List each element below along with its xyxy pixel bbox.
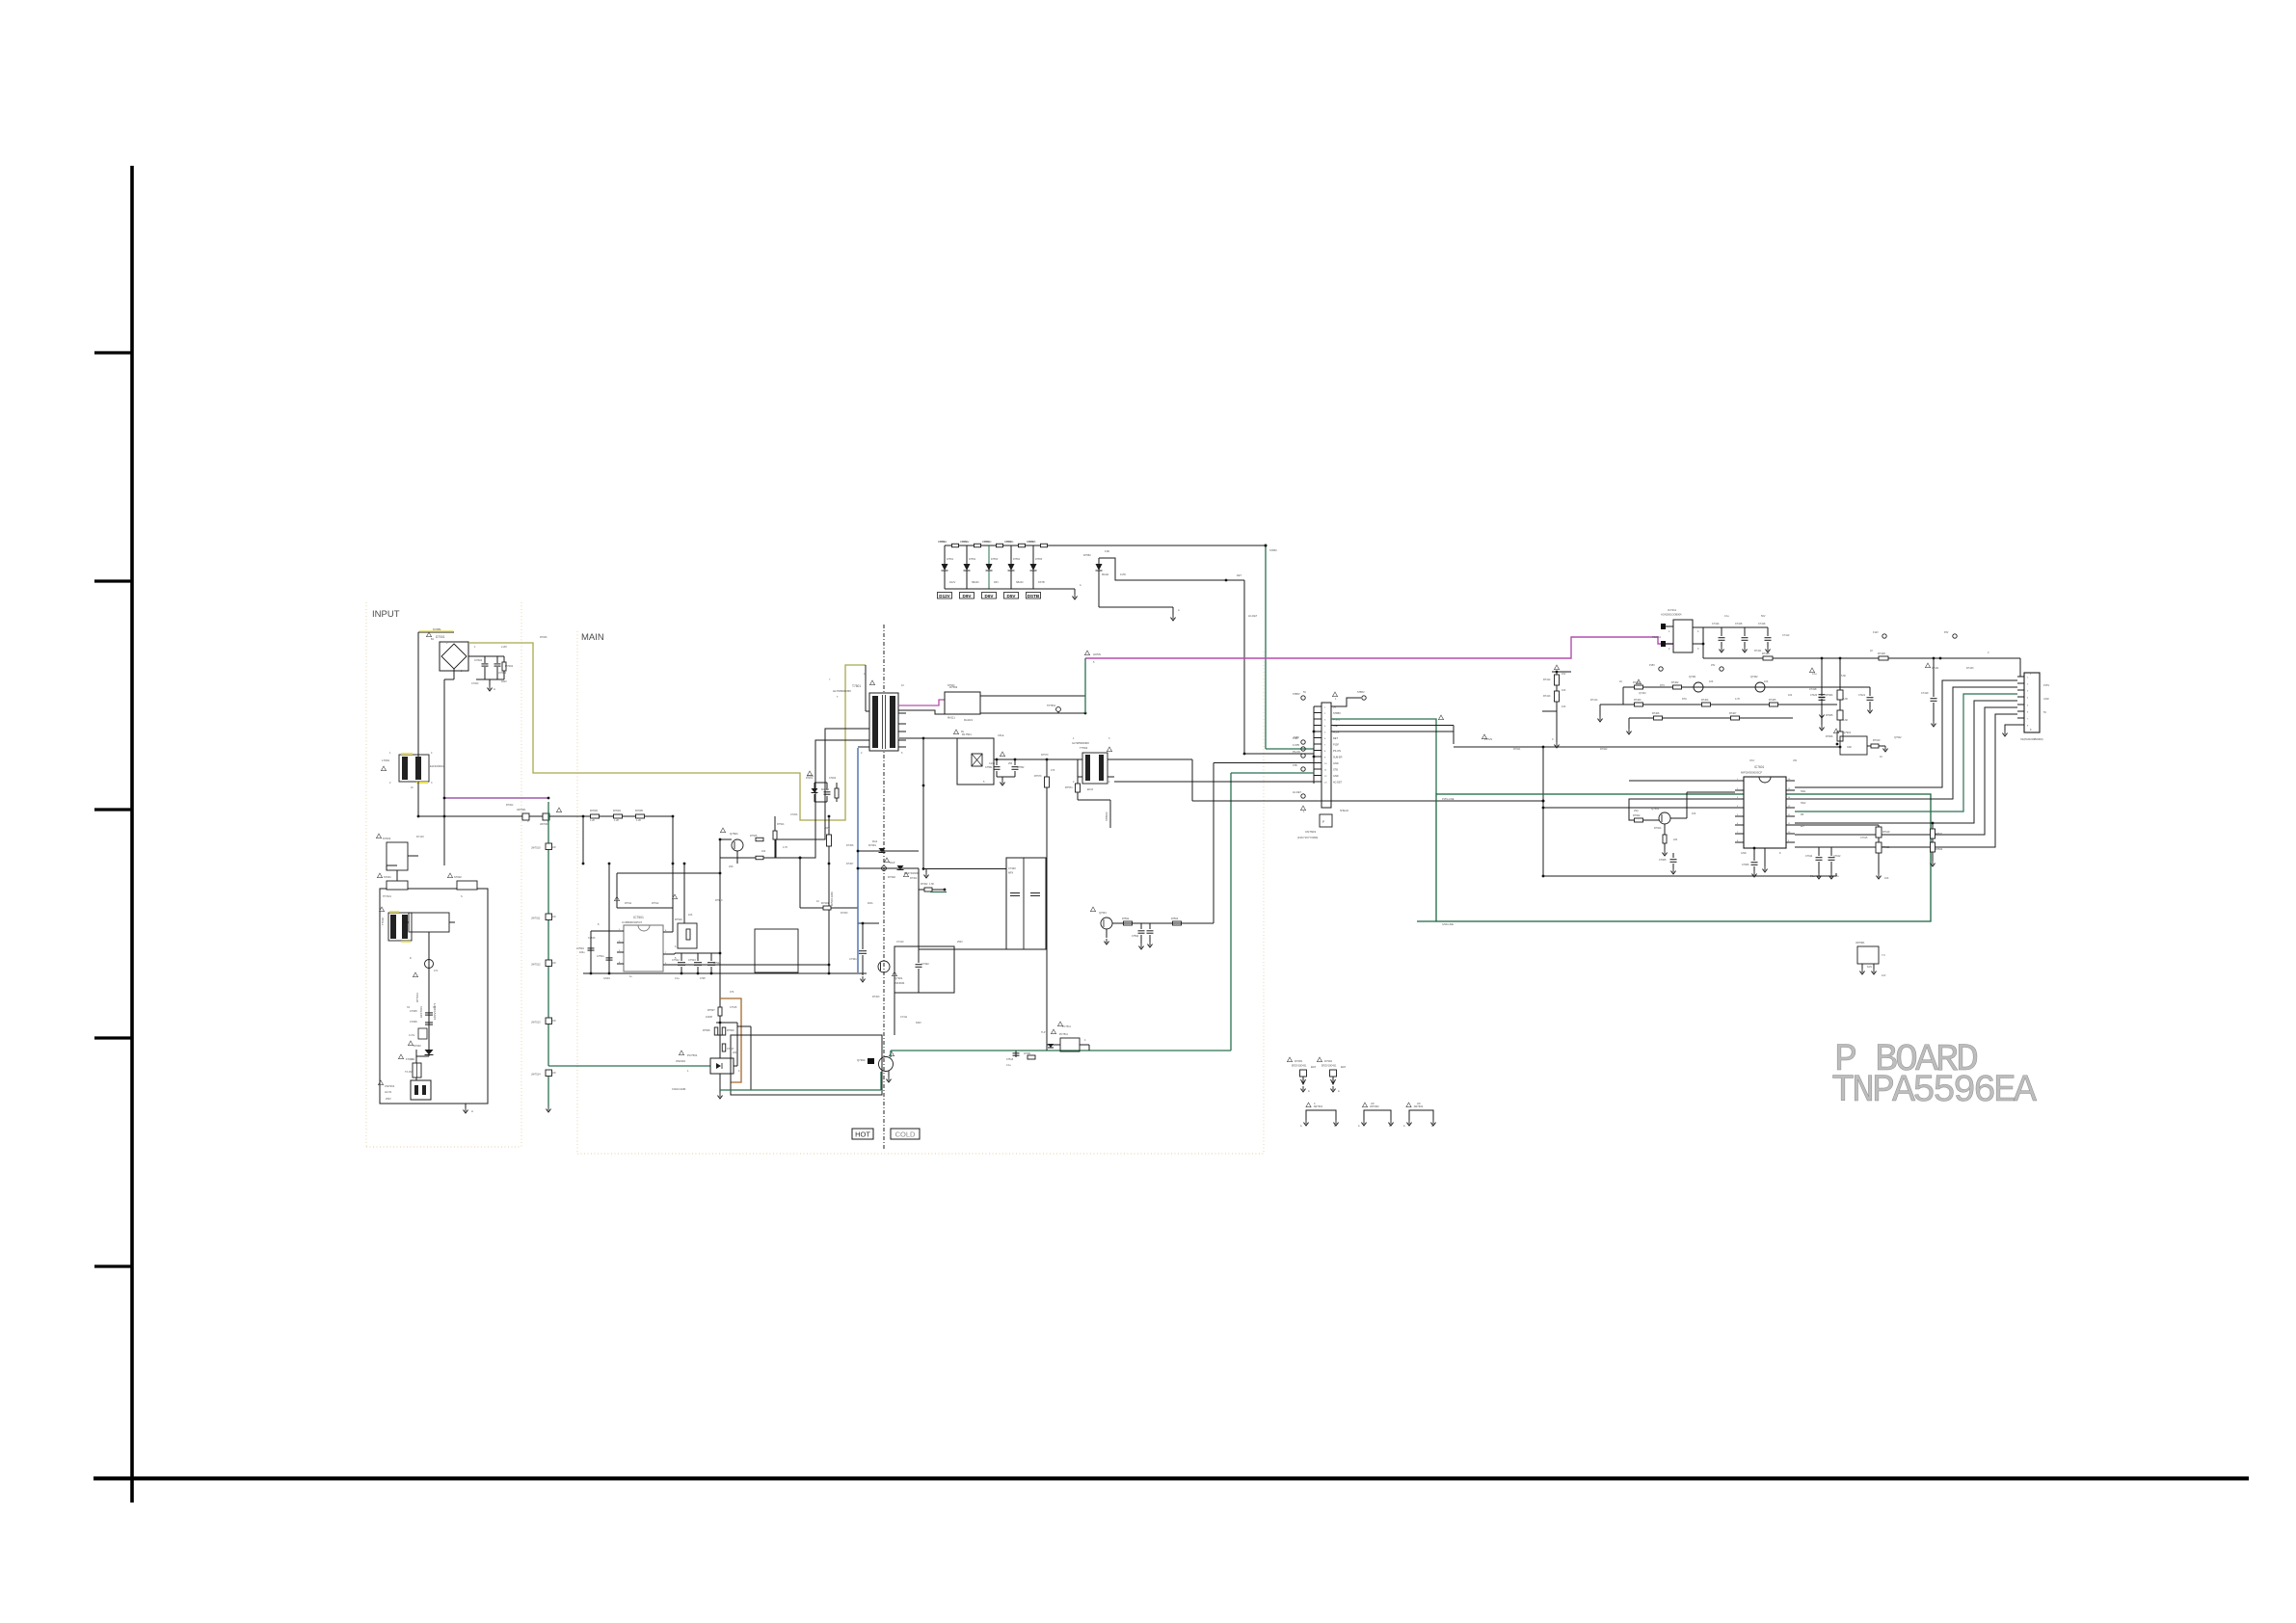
- svg-text:T7501: T7501: [852, 684, 861, 688]
- svg-text:220: 220: [733, 1051, 737, 1054]
- IC7501 left pin 2: [617, 942, 624, 944]
- resistor R7910: [1867, 745, 1871, 747]
- svg-text:DSTB: DSTB: [1028, 594, 1040, 599]
- svg-text:D7303: D7303: [1295, 1059, 1302, 1063]
- svg-text:R7301: R7301: [821, 901, 829, 905]
- main switch block: [731, 1035, 882, 1095]
- IC7601 bottom cap2: [1764, 848, 1766, 866]
- upper cluster caps: [1821, 687, 1823, 696]
- svg-text:220: 220: [1673, 838, 1678, 841]
- wire zener bottom: [1098, 578, 1100, 607]
- wire IC7501 vcc: [591, 930, 624, 932]
- snubber box right: [894, 946, 954, 993]
- svg-text:R7507: R7507: [707, 1008, 715, 1012]
- svg-text:10K: 10K: [1562, 705, 1566, 708]
- magenta wire AC5S: [1085, 637, 1673, 658]
- svg-text:R7512: R7512: [652, 902, 659, 905]
- svg-text:D7554: D7554: [1013, 558, 1021, 561]
- purple wire ACL: [444, 797, 548, 799]
- cap C7605: [1672, 853, 1674, 858]
- svg-text:JW7514: JW7514: [531, 1073, 541, 1077]
- svg-text:AON2601OOB004: AON2601OOB004: [1661, 613, 1682, 617]
- svg-text:ON3191: ON3191: [676, 1059, 686, 1063]
- svg-text:C100: C100: [989, 762, 996, 765]
- rectifier group D6V: [997, 544, 1003, 547]
- capacitor C7002: [496, 656, 498, 663]
- connector CN7603 shield: [1320, 814, 1332, 827]
- T7501 primary pin y775: [866, 746, 869, 748]
- svg-text:AC IN: AC IN: [385, 1090, 391, 1094]
- svg-text:400V: 400V: [501, 680, 507, 683]
- wire fuse link: [415, 1050, 417, 1063]
- jumper JW7511 on standby wire: [546, 914, 552, 920]
- svg-text:D7301: D7301: [868, 843, 876, 847]
- svg-text:4: 4: [1697, 630, 1699, 633]
- aux box: [755, 929, 798, 972]
- IC7601 left pin 6: [1735, 824, 1744, 826]
- brown feedback loop: [720, 998, 741, 1082]
- svg-text:GND: GND: [1333, 775, 1339, 778]
- svg-text:C7511: C7511: [597, 954, 604, 958]
- svg-text:A: A: [1080, 584, 1081, 587]
- svg-text:1K: 1K: [1619, 680, 1622, 683]
- svg-text:C7005: C7005: [410, 1009, 417, 1013]
- svg-text:2: 2: [389, 782, 391, 785]
- capacitor C7514: [710, 953, 712, 961]
- svg-text:STB: STB: [1333, 769, 1338, 772]
- terminal STB5V: [1301, 696, 1305, 700]
- svg-text:C7302: C7302: [921, 962, 929, 966]
- svg-text:C7204: C7204: [790, 813, 798, 816]
- AC inlet CN7001: [411, 1080, 431, 1100]
- X1 pin 1: [2017, 676, 2024, 678]
- svg-text:R7565: R7565: [1028, 541, 1036, 544]
- svg-text:1K: 1K: [1870, 650, 1873, 652]
- resistor R7573: [1046, 759, 1048, 777]
- svg-text:FAN: FAN: [1867, 966, 1872, 969]
- svg-text:P: P: [1322, 820, 1324, 824]
- svg-text:D7302: D7302: [888, 875, 895, 879]
- staircase wire F: [1795, 714, 2017, 847]
- svg-text:630V: 630V: [916, 1022, 921, 1024]
- svg-text:R7921: R7921: [1513, 748, 1521, 751]
- svg-text:T: T: [837, 696, 839, 699]
- wire IC7501 fb loop: [617, 872, 720, 874]
- svg-text:8: 8: [598, 923, 600, 926]
- varistor symbol: [425, 1050, 434, 1055]
- green wire to connector: [891, 1050, 1231, 1051]
- svg-text:5: 5: [983, 781, 985, 784]
- svg-text:F5V: F5V: [1944, 631, 1949, 634]
- standby feedback cluster: [1060, 1038, 1080, 1051]
- svg-text:STB5V: STB5V: [1357, 691, 1365, 694]
- svg-text:10K: 10K: [688, 914, 693, 917]
- capacitor row C7414: [1721, 627, 1722, 636]
- resistor stack R7906: [1839, 720, 1841, 732]
- transformer T7502: [1082, 753, 1108, 784]
- CN7603 pin 3: [1314, 718, 1322, 720]
- IC7601 left pin 3: [1735, 798, 1744, 800]
- svg-text:1: 1: [1303, 811, 1305, 813]
- svg-text:10K: 10K: [1692, 812, 1696, 815]
- svg-text:10: 10: [901, 684, 904, 687]
- terminal PS-ON: [1301, 754, 1305, 758]
- capacitor C7418: [1821, 658, 1823, 693]
- CN7603 right wire 3: [1331, 725, 1454, 727]
- staircase wire B: [1795, 687, 2017, 799]
- svg-text:1.5K: 1.5K: [929, 883, 934, 886]
- svg-text:R7631: R7631: [1936, 833, 1943, 836]
- svg-text:R7563: R7563: [948, 684, 955, 687]
- svg-text:TLP: TLP: [1041, 1031, 1046, 1034]
- terminal P15F: [1301, 740, 1305, 744]
- svg-text:A: A: [1403, 1125, 1405, 1128]
- svg-text:JW7513: JW7513: [531, 1021, 541, 1024]
- svg-text:HOT: HOT: [855, 1131, 870, 1139]
- svg-text:MA111S: MA111S: [964, 719, 974, 722]
- svg-text:R7573: R7573: [1041, 754, 1049, 757]
- wire bus drop right: [672, 816, 674, 932]
- resistor R7003: [591, 814, 600, 818]
- svg-text:INPUT: INPUT: [372, 609, 400, 620]
- border tick 1: [94, 351, 132, 354]
- svg-text:C7615: C7615: [1860, 837, 1868, 839]
- long wire under connector: [1192, 800, 1543, 802]
- svg-text:A: A: [494, 687, 495, 691]
- svg-text:GND1: GND1: [603, 977, 611, 980]
- svg-text:VIN: VIN: [1793, 759, 1797, 762]
- svg-text:R7418: R7418: [1878, 652, 1885, 655]
- svg-text:EF16: EF16: [1087, 788, 1094, 791]
- IC7501 left pin 4: [617, 963, 624, 965]
- startup resistor R7515: [828, 816, 830, 973]
- svg-text:R7302: R7302: [921, 883, 928, 886]
- svg-text:JW: JW: [552, 916, 556, 918]
- svg-text:FB: FB: [1801, 813, 1804, 816]
- filter block: [409, 913, 449, 932]
- CN7603 left wire p10: [1214, 762, 1314, 764]
- svg-text:P15F: P15F: [1333, 744, 1339, 747]
- svg-text:B1: B1: [431, 638, 435, 641]
- svg-text:T3.15A: T3.15A: [405, 1071, 413, 1074]
- svg-text:C7513: C7513: [1006, 1058, 1014, 1061]
- COLD label: [891, 1129, 920, 1139]
- border frame left line: [130, 166, 134, 1503]
- primary pin stub blue: [858, 746, 866, 748]
- svg-text:1.2K: 1.2K: [636, 819, 641, 822]
- svg-text:0.1u: 0.1u: [675, 977, 680, 980]
- svg-text:4.7K: 4.7K: [1735, 698, 1740, 701]
- X1 pin 5: [2017, 704, 2024, 705]
- svg-text:D9V: D9V: [963, 594, 973, 599]
- svg-text:0.1u: 0.1u: [1724, 615, 1729, 618]
- svg-text:A: A: [1300, 1125, 1302, 1128]
- svg-text:JW: JW: [1371, 1103, 1375, 1105]
- svg-text:X2: X2: [407, 1006, 411, 1009]
- thermistor RT7001: [425, 960, 434, 969]
- svg-text:C7605: C7605: [1659, 859, 1667, 862]
- svg-text:C7001: C7001: [474, 658, 483, 662]
- svg-text:R7573: R7573: [1034, 775, 1042, 778]
- IC7601 right pin 15: [1786, 789, 1795, 791]
- svg-text:R7593: R7593: [1171, 918, 1179, 920]
- capacitor row C7416: [1767, 627, 1769, 636]
- terminal F-STB: [1301, 747, 1305, 751]
- jumper staple JW7303: [1409, 1110, 1433, 1120]
- svg-text:R7412: R7412: [1543, 678, 1551, 681]
- resistor chain R7619: [1878, 825, 1880, 827]
- IC7601 left wire 1: [1629, 780, 1735, 782]
- svg-text:D7303: D7303: [841, 912, 848, 915]
- svg-text:R7602: R7602: [1633, 814, 1641, 817]
- resistor R7510: [722, 1044, 726, 1051]
- test point TP7501: [1056, 707, 1061, 712]
- svg-text:D7002: D7002: [414, 1044, 421, 1048]
- svg-text:C7513: C7513: [688, 958, 696, 962]
- svg-text:100u: 100u: [579, 951, 585, 954]
- svg-text:DSTB: DSTB: [1038, 581, 1045, 584]
- svg-text:TP7501: TP7501: [1047, 704, 1056, 707]
- svg-text:AC5S: AC5S: [1093, 652, 1101, 656]
- wire secondary bottom: [1191, 759, 1193, 801]
- jumper staple JW7301: [1306, 1110, 1336, 1120]
- X1 pin 3: [2017, 689, 2024, 691]
- warning label Q7301: [892, 971, 896, 976]
- svg-text:400V: 400V: [824, 827, 830, 830]
- svg-text:ERZ: ERZ: [1311, 1066, 1316, 1069]
- svg-text:0: 0: [1552, 738, 1554, 741]
- IC7601 right pin 9: [1786, 841, 1795, 843]
- CN7603 left wire p13: [1114, 781, 1314, 783]
- IC7601 regulator body: [1744, 777, 1786, 848]
- wire center cont: [719, 1016, 721, 1058]
- T7501 secondary pin y740: [898, 712, 906, 714]
- terminal STB: [1301, 767, 1305, 771]
- wire block center vertical: [428, 932, 430, 1050]
- svg-text:1u: 1u: [1836, 875, 1839, 878]
- wire R7619 top: [1795, 824, 1879, 826]
- capacitor C7005: [425, 1012, 433, 1014]
- svg-text:COLD: COLD: [895, 1131, 916, 1139]
- svg-text:C7419: C7419: [1921, 692, 1929, 695]
- IC7501 right pin 6: [663, 964, 670, 966]
- svg-text:A: A: [1358, 1125, 1360, 1128]
- wire secondary relay: [899, 737, 957, 739]
- svg-text:0.1u: 0.1u: [1812, 673, 1817, 676]
- svg-text:C7006: C7006: [410, 1020, 417, 1024]
- magenta secondary wire: [898, 700, 945, 705]
- svg-text:R7571: R7571: [1065, 785, 1073, 789]
- CN7603 pin 12: [1314, 775, 1322, 777]
- svg-text:47K: 47K: [730, 991, 734, 994]
- svg-text:2SK: 2SK: [729, 865, 734, 868]
- svg-text:MIP2M30000SCF: MIP2M30000SCF: [1741, 771, 1763, 775]
- box C7320 bulk caps: [1006, 858, 1046, 949]
- capacitor C7551: [996, 759, 998, 765]
- svg-text:R7303: R7303: [872, 996, 880, 998]
- CN7603 pin 1: [1314, 705, 1322, 707]
- svg-text:C7310: C7310: [896, 941, 904, 944]
- svg-text:AC-DET: AC-DET: [1293, 791, 1301, 794]
- staircase wire C: [1795, 694, 2017, 811]
- svg-text:R7413: R7413: [1543, 695, 1551, 698]
- svg-text:(K1KY16YY0090): (K1KY16YY0090): [1297, 836, 1318, 839]
- wire diode D7301: [858, 850, 919, 852]
- svg-text:D12V: D12V: [939, 594, 950, 599]
- IC7601 left wire 3: [1543, 807, 1735, 809]
- svg-text:2: 2: [861, 752, 863, 755]
- svg-text:5.6K: 5.6K: [1841, 675, 1846, 678]
- svg-text:S7001: S7001: [384, 875, 391, 879]
- svg-text:RY12V: RY12V: [416, 836, 424, 838]
- caps right C7611: [1818, 847, 1820, 856]
- svg-text:GND: GND: [1333, 762, 1339, 765]
- svg-text:COLD-GND: COLD-GND: [672, 1087, 685, 1091]
- transistor Q7602: [1659, 812, 1670, 824]
- svg-text:A: A: [471, 1109, 473, 1113]
- svg-text:FMG: FMG: [868, 902, 873, 905]
- IC7601 bottom caps: [1753, 848, 1755, 861]
- svg-text:RGP10: RGP10: [821, 788, 830, 791]
- svg-text:C1BB00002547: C1BB00002547: [622, 920, 643, 924]
- svg-text:GND: GND: [1741, 852, 1747, 855]
- svg-text:R7407: R7407: [1729, 712, 1737, 715]
- svg-text:D7553: D7553: [991, 558, 999, 561]
- svg-text:1: 1: [389, 752, 391, 755]
- svg-text:ERZV10D431: ERZV10D431: [1322, 1065, 1337, 1068]
- svg-text:SB240: SB240: [1016, 581, 1024, 584]
- IC7501 left pin 3: [617, 951, 624, 953]
- svg-text:4: 4: [1108, 781, 1110, 784]
- svg-text:ERZ: ERZ: [1341, 1066, 1346, 1069]
- staircase wire A: [1795, 680, 2017, 787]
- svg-text:R7905: R7905: [1826, 714, 1833, 717]
- svg-text:RT7001: RT7001: [415, 993, 419, 1002]
- svg-text:1: 1: [1073, 737, 1075, 740]
- svg-text:5.6K: 5.6K: [1843, 719, 1848, 722]
- svg-text:R7404: R7404: [1701, 699, 1709, 702]
- transistor Q7301: [878, 961, 890, 972]
- svg-text:Q7902: Q7902: [1894, 736, 1902, 739]
- wire IC7501 out: [663, 953, 675, 955]
- T7501 secondary pin y732: [898, 705, 906, 706]
- svg-text:1K: 1K: [1880, 756, 1882, 758]
- zener D7552: [1098, 558, 1100, 564]
- svg-text:R7604: R7604: [1654, 827, 1662, 830]
- IC7501 power supply controller: [624, 925, 663, 971]
- svg-text:47K: 47K: [1051, 769, 1055, 772]
- svg-text:10: 10: [816, 900, 819, 903]
- svg-text:ERZV10D431: ERZV10D431: [1292, 1065, 1307, 1068]
- svg-text:5: 5: [1093, 661, 1095, 664]
- IC7601 left wire 2: [1629, 799, 1735, 820]
- CN7603 pin 13: [1314, 781, 1322, 783]
- jumper JW7513 on standby wire: [546, 1018, 552, 1024]
- jumper staple JW7302: [1364, 1110, 1391, 1120]
- svg-text:4: 4: [738, 1070, 740, 1073]
- svg-text:PS2561: PS2561: [1652, 636, 1662, 639]
- svg-text:R7414: R7414: [1590, 699, 1598, 702]
- svg-text:C7516: C7516: [588, 937, 596, 940]
- border frame bottom line: [93, 1477, 2249, 1480]
- svg-text:R7001: R7001: [505, 664, 514, 668]
- CN7603 pin 5: [1314, 731, 1322, 732]
- svg-text:2: 2: [1073, 781, 1075, 784]
- staircase wire D: [1795, 701, 2017, 823]
- primary snubber wire A: [776, 729, 866, 839]
- INPUT block outline: [380, 889, 488, 1104]
- svg-text:ELF21N010A: ELF21N010A: [430, 764, 445, 768]
- upper cluster row2: [1600, 704, 1837, 705]
- capacitor C7006: [425, 1022, 433, 1024]
- X1 pin 4: [2017, 696, 2024, 698]
- CN7603 pin 6: [1314, 737, 1322, 739]
- wire T7502 bottom: [1077, 792, 1079, 800]
- CN7603 pin 2: [1314, 712, 1322, 714]
- relay contact S7001: [387, 881, 408, 890]
- svg-text:R7632: R7632: [1936, 848, 1943, 851]
- X1 pin 8: [2017, 724, 2024, 726]
- transformer T7002: [388, 913, 412, 941]
- jumper JW7514 on standby wire: [546, 1070, 552, 1077]
- svg-text:JW: JW: [552, 846, 556, 849]
- svg-text:R7002: R7002: [506, 804, 514, 807]
- fuse F7001: [413, 1063, 421, 1078]
- svg-text:Q7401: Q7401: [1689, 676, 1696, 678]
- svg-text:C7415: C7415: [1735, 623, 1743, 625]
- svg-text:0: 0: [527, 820, 529, 823]
- transformer T7501: [869, 693, 898, 751]
- svg-text:10K: 10K: [1562, 689, 1566, 692]
- resistor R7507: [719, 998, 721, 1007]
- terminal AC-DET: [1301, 794, 1305, 798]
- wire photocoupler out: [750, 1026, 752, 1090]
- MAIN region dotted border: [576, 631, 578, 1154]
- INPUT region dotted border: [365, 602, 367, 1147]
- relay contact S7002: [457, 881, 477, 890]
- wire center switch node: [719, 839, 721, 998]
- svg-text:P15F: P15F: [1294, 736, 1299, 739]
- svg-text:Q7602: Q7602: [1651, 807, 1660, 811]
- resistor R7005: [636, 814, 645, 818]
- svg-text:R7904: R7904: [1826, 694, 1833, 697]
- wire bridge AC right: [468, 655, 504, 657]
- border tick 3: [94, 808, 132, 811]
- wire photocoupler right: [734, 1065, 737, 1067]
- wire caps top: [1795, 846, 1831, 848]
- wire box output: [980, 712, 1085, 714]
- connector CN7603 body: [1322, 703, 1331, 808]
- svg-text:C7002: C7002: [498, 671, 507, 675]
- wire secondary rail: [800, 907, 858, 909]
- wire IC7411 cathode: [1702, 627, 1704, 658]
- svg-text:C7431: C7431: [1932, 667, 1939, 670]
- HOT COLD separator dash-dot line: [883, 625, 885, 1149]
- svg-text:AC-DET: AC-DET: [1248, 615, 1258, 618]
- svg-text:D6V: D6V: [985, 594, 995, 599]
- svg-text:CN7001: CN7001: [385, 1084, 395, 1088]
- svg-text:C7612: C7612: [1833, 855, 1841, 858]
- main ground bus: [583, 972, 867, 974]
- svg-text:JW7512: JW7512: [531, 963, 541, 967]
- svg-text:250: 250: [1008, 762, 1013, 765]
- capacitor C7510: [590, 945, 592, 947]
- svg-text:GND: GND: [2043, 698, 2049, 701]
- svg-text:EN: EN: [1801, 825, 1804, 828]
- svg-text:C7301: C7301: [849, 957, 857, 961]
- feedback box IC7541: [945, 692, 980, 714]
- svg-text:PC7511: PC7511: [1059, 1033, 1068, 1036]
